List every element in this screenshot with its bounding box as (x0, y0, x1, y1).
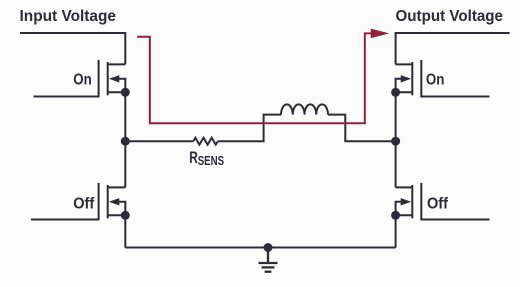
inductor L1 (281, 104, 328, 114)
wire bottom rail (125, 247, 395, 249)
svg-text:Off: Off (73, 195, 95, 212)
wire left rail Q1 to Q3 (124, 92, 126, 187)
wire Q3 source to bottom rail (124, 215, 126, 247)
wire inductor to mid rail right (328, 115, 396, 142)
node Q1 source junction (121, 88, 130, 97)
svg-text:R: R (189, 148, 198, 167)
svg-text:Off: Off (427, 195, 449, 212)
wire right rail Q2 to Q4 (395, 92, 397, 187)
svg-text:Input Voltage: Input Voltage (20, 8, 117, 25)
transistor Q1 top-left (99, 60, 126, 98)
wire Q4 source to bottom rail (395, 215, 397, 247)
node RSENS label (189, 148, 224, 168)
transistor Q2 top-right (396, 60, 422, 98)
node Q2 source junction (391, 88, 400, 97)
svg-text:SENS: SENS (198, 154, 224, 168)
wire Q1 gate lead (34, 96, 99, 98)
wire current path (red) (137, 33, 372, 123)
node Q4 source junction (391, 211, 400, 220)
node Q3 source junction (121, 211, 130, 220)
wire mid rail left segment (125, 140, 193, 142)
ground (259, 248, 278, 272)
wire left drop to Q1 drain (124, 32, 126, 64)
wire Q3 gate lead (31, 219, 99, 221)
node left mid junction (121, 137, 130, 146)
svg-text:On: On (73, 72, 92, 89)
svg-text:Output Voltage: Output Voltage (396, 8, 504, 25)
wire input top rail (20, 32, 125, 34)
wire right drop to Q2 drain (395, 32, 397, 64)
wire Q2 gate lead (421, 96, 489, 98)
transistor Q3 bottom-left (99, 183, 126, 221)
wire current path arrowhead (371, 29, 390, 39)
wire output top rail (396, 32, 510, 34)
wire mid rail to inductor (218, 115, 281, 142)
svg-text:On: On (426, 72, 445, 89)
node right mid junction (391, 137, 400, 146)
resistor RSENS (193, 138, 218, 145)
node ground junction (264, 243, 273, 252)
wire Q4 gate lead (421, 219, 489, 221)
transistor Q4 bottom-right (396, 183, 422, 221)
